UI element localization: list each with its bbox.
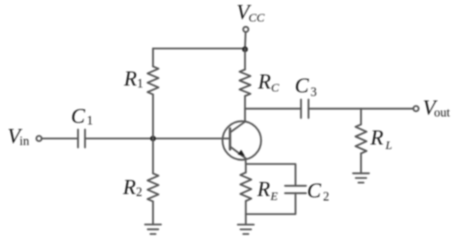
wire base node to transistor base [153,138,230,140]
ground below RE [238,225,254,234]
svg-text:C: C [71,104,86,128]
svg-text:C: C [295,74,310,98]
label Vin [8,124,30,148]
wire Vcc node to RC [244,49,246,70]
node Vout terminal [413,106,418,111]
svg-text:C: C [271,80,280,94]
label R1 [123,67,143,91]
label RC [257,70,280,95]
resistor R2 [148,173,159,201]
junction base node [150,136,156,142]
ground below R2 [145,225,161,235]
svg-text:CC: CC [249,10,266,24]
capacitor C2 [285,186,306,193]
wire C1 to base node [85,138,153,140]
svg-text:3: 3 [311,85,317,99]
svg-text:R: R [370,126,384,150]
label C2 [307,178,329,203]
capacitor C3 [301,100,309,119]
power Vcc terminal [243,27,248,32]
label Vcc [237,0,266,24]
wire emitter node to C2 top [246,164,296,186]
svg-text:1: 1 [137,77,143,91]
ground below RL [353,173,369,182]
wire emitter to split node [245,158,247,164]
svg-text:R: R [122,175,136,199]
svg-text:R: R [256,177,270,201]
svg-text:R: R [257,70,271,94]
label C1 [71,104,93,128]
label RE [256,177,278,203]
label RL [370,126,393,152]
wire C2 bottom to bottom node [246,193,296,214]
svg-text:C: C [307,178,322,202]
svg-text:2: 2 [323,189,329,203]
wire bottom node to ground [245,214,247,225]
transistor Q1 (NPN) [223,121,262,160]
resistor R1 [148,66,159,94]
svg-text:in: in [20,134,30,148]
wire R2 to ground [152,201,154,224]
wire base node to R2 [152,139,154,174]
wire collector node to transistor collector [244,109,246,122]
svg-text:E: E [270,189,279,203]
label Vout [423,96,451,120]
wire RC to collector node [244,96,246,109]
wire R1 to base node [152,94,154,138]
wire output to RL [360,109,362,125]
svg-text:2: 2 [136,185,142,199]
wire RL to ground [360,153,362,173]
node Vin terminal [36,136,41,141]
resistor RC [240,70,251,97]
svg-text:out: out [434,106,451,120]
svg-text:1: 1 [87,114,93,128]
wire top rail [153,48,245,50]
wire Vin to C1 [42,138,78,140]
wire Vcc terminal to rail [244,32,247,49]
svg-text:R: R [123,67,137,91]
wire C3 to Vout [309,108,414,110]
resistor RE [240,173,251,202]
capacitor C1 [78,130,85,148]
label C3 [295,74,317,99]
wire top rail corner to R1 [152,49,154,67]
svg-text:L: L [385,138,393,152]
wire emitter node down to RE [245,164,247,173]
junction Vcc node [242,46,248,52]
resistor RL [356,124,367,153]
wire RE to bottom node [245,201,247,214]
label R2 [122,175,142,199]
wire collector node to C3 [245,108,301,110]
